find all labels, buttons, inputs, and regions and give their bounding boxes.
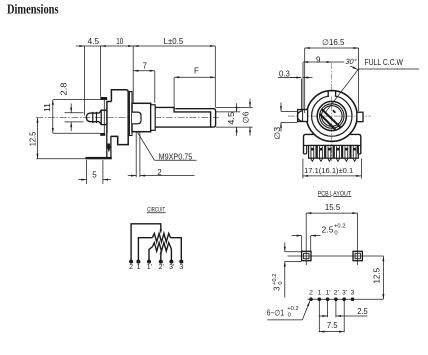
dim 4.5 top — [76, 45, 85, 47]
svg-text:12.5: 12.5 — [373, 267, 382, 283]
svg-text:3: 3 — [273, 286, 282, 291]
body outline — [107, 90, 128, 145]
svg-text:∅3: ∅3 — [273, 126, 282, 140]
svg-text:FULL C.C.W: FULL C.C.W — [365, 58, 404, 67]
svg-text:9: 9 — [316, 55, 321, 64]
dim 15.5 — [306, 213, 357, 265]
dim 12.5 left — [37, 158, 86, 160]
front texts — [273, 38, 403, 175]
svg-text:15.5: 15.5 — [325, 203, 341, 212]
svg-text:4.5: 4.5 — [88, 37, 100, 46]
dim 17.1 — [303, 159, 362, 179]
mounting plate strip — [129, 92, 132, 136]
svg-text:2.5: 2.5 — [357, 307, 368, 316]
front dims — [278, 48, 419, 179]
pin row line — [308, 298, 384, 300]
notch — [329, 92, 335, 97]
svg-text:10: 10 — [116, 37, 124, 46]
svg-text:M9XP0.75: M9XP0.75 — [159, 152, 193, 161]
dimensions thin lines — [37, 46, 253, 184]
dim 2.8 left — [65, 113, 84, 122]
dim dia6 shaft — [249, 99, 251, 108]
terminal pin side — [108, 144, 111, 147]
svg-text:∅6: ∅6 — [241, 111, 250, 124]
terminal dots — [129, 260, 183, 264]
bushing — [132, 103, 151, 131]
shaft boss inside bushing — [132, 112, 141, 124]
svg-text:3': 3' — [169, 264, 174, 271]
svg-text:+0.2: +0.2 — [287, 306, 298, 312]
mount pad left — [302, 251, 311, 260]
rear peg (shaft end) — [86, 110, 107, 124]
svg-text:1': 1' — [325, 290, 330, 297]
dim 10 top — [85, 45, 101, 47]
svg-text:12.5: 12.5 — [28, 131, 37, 146]
svg-text:2: 2 — [129, 264, 133, 271]
dim 3 pad — [285, 252, 302, 262]
svg-text:2': 2' — [159, 264, 164, 271]
svg-text:2.5: 2.5 — [322, 226, 335, 235]
outer body circle — [306, 91, 357, 142]
svg-text:1: 1 — [318, 290, 322, 297]
cover side line — [103, 100, 105, 133]
svg-text:2.8: 2.8 — [60, 82, 69, 96]
centerline side view — [36, 117, 219, 119]
resistor R upper — [152, 233, 170, 242]
pcb pads row — [309, 297, 354, 301]
dim F — [174, 76, 215, 78]
svg-text:5: 5 — [92, 171, 97, 180]
pad centerline — [288, 255, 384, 257]
dim 2 bottom — [136, 132, 140, 177]
svg-text:3: 3 — [351, 290, 355, 297]
wiper arrows — [160, 229, 162, 234]
svg-text:7.5: 7.5 — [327, 321, 338, 330]
shaft circles — [317, 101, 346, 130]
svg-text:0: 0 — [278, 281, 284, 284]
side view texts — [28, 37, 250, 180]
dim 9 — [303, 61, 332, 63]
pin shrouds — [309, 145, 359, 158]
svg-text:∅16.5: ∅16.5 — [322, 38, 345, 47]
svg-text:17.1(16.1)±0.1: 17.1(16.1)±0.1 — [304, 166, 353, 175]
svg-text:F: F — [194, 66, 199, 75]
dim L±0.5 — [133, 45, 215, 47]
thread relief ring — [151, 105, 156, 131]
shaft slot — [322, 109, 341, 127]
horizontal centerline front — [288, 115, 371, 117]
pins front — [311, 146, 356, 161]
dim 7.5 — [319, 301, 344, 332]
svg-text:4.5: 4.5 — [227, 111, 236, 125]
svg-text:0.3: 0.3 — [279, 70, 290, 79]
svg-text:L±0.5: L±0.5 — [164, 37, 184, 46]
leader 6-dia1 — [267, 319, 302, 321]
pin holes front — [311, 148, 356, 151]
dim 2.5 pitch — [328, 301, 336, 317]
dim 11 left — [53, 100, 100, 134]
FULL C.C.W underline — [358, 68, 419, 70]
svg-text:2': 2' — [334, 290, 339, 297]
base feet — [304, 146, 361, 154]
dim 7 — [133, 70, 155, 72]
svg-text:6−∅1: 6−∅1 — [267, 308, 285, 317]
svg-text:2: 2 — [157, 168, 162, 177]
support bracket legs — [107, 133, 111, 157]
resistor R lower — [152, 243, 170, 252]
top cover tab — [100, 97, 107, 100]
svg-text:1: 1 — [137, 264, 141, 271]
pcb texts — [267, 203, 382, 330]
wires — [131, 224, 181, 262]
svg-text:11: 11 — [43, 102, 52, 112]
bracket foot — [86, 157, 112, 159]
svg-text:0: 0 — [334, 230, 337, 236]
svg-text:3': 3' — [342, 290, 347, 297]
dim dia16.5 — [305, 48, 359, 113]
shaft — [155, 107, 215, 127]
svg-text:1': 1' — [147, 264, 152, 271]
dim 4.5 shaft flat — [216, 107, 253, 127]
dim dia3 — [281, 111, 297, 122]
pcb pin labels — [309, 290, 355, 297]
mount pad right — [353, 251, 362, 260]
dim 0.3 — [278, 77, 297, 79]
leader M9XP0.75 — [138, 133, 197, 161]
svg-text:0: 0 — [288, 313, 291, 319]
bottom cover tab — [100, 133, 105, 136]
svg-text:2: 2 — [309, 290, 313, 297]
svg-text:+0.2: +0.2 — [334, 224, 345, 230]
terminal labels — [129, 264, 183, 271]
dim 12.5 pcb — [382, 256, 384, 299]
left tab — [298, 110, 308, 122]
dim 5 bottom — [87, 160, 103, 184]
svg-text:3: 3 — [179, 264, 183, 271]
right tab — [357, 112, 363, 122]
top dim extension lines — [84, 46, 86, 116]
svg-text:30°: 30° — [345, 57, 358, 66]
vertical centerline front — [331, 63, 333, 161]
svg-text:7: 7 — [143, 61, 148, 70]
ring circle — [312, 96, 352, 136]
base collar — [304, 134, 361, 154]
dim 2.5 pad — [302, 236, 311, 251]
svg-text:Dimensions: Dimensions — [7, 3, 59, 18]
leader 30 deg — [326, 69, 359, 112]
